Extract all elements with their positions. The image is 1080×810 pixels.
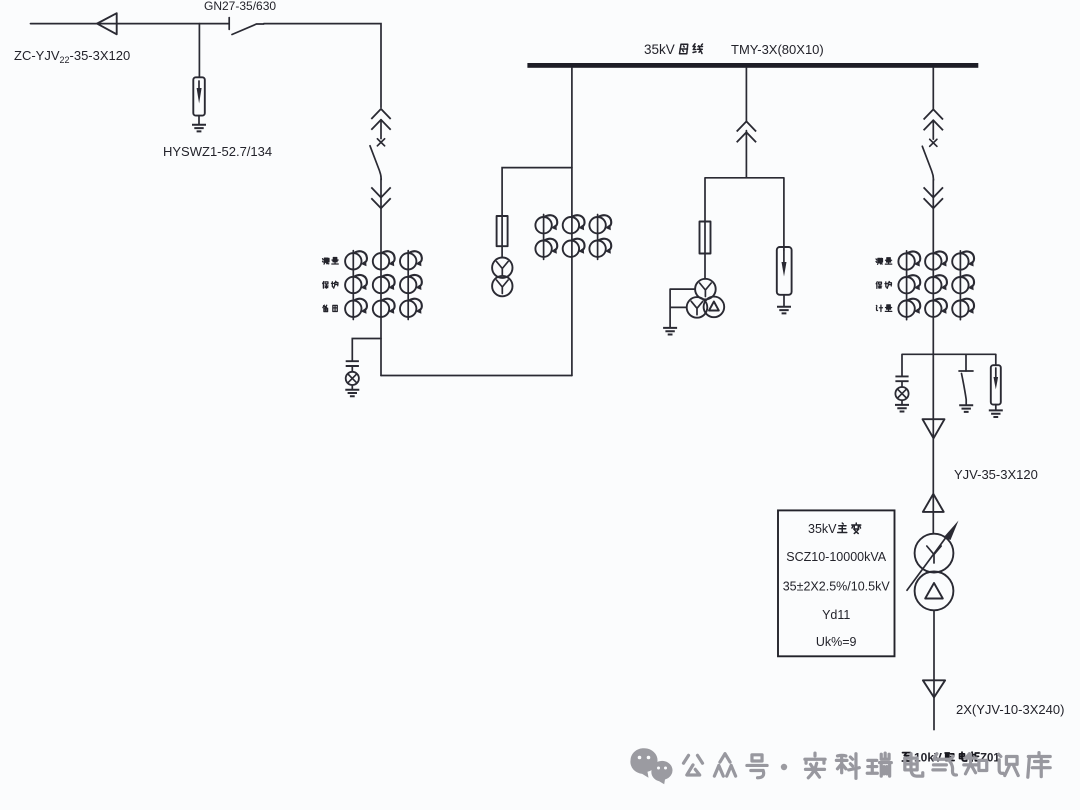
breaker QF1 drawer contact upper	[371, 109, 390, 130]
wire bus riser (incoming connection)	[571, 68, 573, 376]
label 保护 (outgoing)	[876, 281, 891, 288]
wire outgoing feeder from bus	[932, 68, 934, 109]
wire	[380, 120, 382, 139]
ground (PT2)	[663, 328, 677, 335]
label 备用	[323, 305, 337, 311]
CT set 测量 (outgoing row 1)	[898, 251, 974, 269]
earthing switch	[959, 371, 973, 405]
ground (earthing switch)	[959, 405, 973, 412]
circuit breaker QF1	[377, 139, 384, 146]
label cable ZC-YJV22-35-3X120	[14, 48, 130, 65]
breaker QF1 blade	[370, 146, 381, 180]
label 至10kV 配电柜Z01	[902, 751, 1000, 765]
svg-text:Yd11: Yd11	[822, 608, 850, 622]
spec line 35±2X2.5%/10.5kV	[783, 580, 891, 594]
PT drawer contact	[737, 121, 756, 142]
watermark wechat icon	[630, 748, 672, 784]
surge arrester F2	[777, 247, 792, 306]
wire PT branch from bus	[745, 68, 747, 121]
ground (arrester F3)	[989, 410, 1003, 417]
wire to feeder corner	[264, 24, 381, 108]
wire stub to live-display device	[352, 339, 381, 362]
CT column wires (bus riser)	[544, 215, 598, 260]
CT set row 1 (bus riser)	[535, 215, 611, 233]
breaker QF1 drawer contact lower	[371, 187, 390, 208]
svg-text:YJV-35-3X120: YJV-35-3X120	[954, 467, 1038, 482]
ground (arrester F2)	[777, 307, 791, 314]
label 保护	[323, 281, 338, 288]
breaker QF2 drawer contact lower	[924, 187, 943, 208]
transformer spec box	[778, 510, 895, 656]
cable terminal (up)	[923, 494, 944, 512]
label 测量	[323, 258, 339, 265]
fuse FU2	[700, 222, 711, 254]
busbar 35kV	[527, 63, 978, 68]
ground (arrester F1)	[192, 125, 206, 132]
svg-text:HYSWZ1-52.7/134: HYSWZ1-52.7/134	[163, 144, 272, 159]
label 35kV 母线	[644, 42, 703, 57]
CT set 备用 (row 3)	[345, 299, 422, 317]
tap changer arrow	[907, 521, 959, 591]
label cable 2X(YJV-10-3X240)	[956, 702, 1064, 717]
watermark text 公众号·安科瑞电气知识库	[683, 753, 1050, 779]
cable terminal secondary (down)	[923, 680, 945, 697]
surge arrester F3	[991, 365, 1001, 410]
CT column wires (outgoing)	[907, 251, 961, 320]
CT set 保护 (outgoing row 2)	[898, 275, 974, 293]
svg-text:SCZ10-10000kVA: SCZ10-10000kVA	[786, 550, 886, 564]
wire feeder down	[380, 179, 382, 376]
svg-text:35kV: 35kV	[808, 522, 837, 536]
CT set 计量 (outgoing row 3)	[898, 299, 974, 317]
svg-text:GN27-35/630: GN27-35/630	[204, 0, 276, 13]
svg-text:2X(YJV-10-3X240): 2X(YJV-10-3X240)	[956, 702, 1064, 717]
wire feeder down	[932, 180, 934, 534]
CT set 保护 (row 2)	[345, 275, 422, 293]
wire incoming overhead line	[31, 23, 229, 25]
live-line display device (cap+lamp+ground)	[345, 361, 359, 396]
label 测量 (outgoing)	[876, 258, 892, 265]
wire PT2 neutral to ground	[670, 289, 695, 327]
circuit breaker QF2	[930, 139, 937, 146]
spec line SCZ10-10000kVA	[786, 550, 886, 564]
CT set row 2 (bus riser)	[535, 239, 611, 257]
label GN27-35/630	[204, 0, 276, 13]
fuse FU1	[497, 216, 508, 246]
spec line 35kV主变	[808, 522, 861, 536]
voltage transformer PT2 (three winding)	[687, 279, 725, 318]
CT column wires	[353, 251, 408, 320]
label cable YJV-35-3X120	[954, 467, 1038, 482]
wire arrester tap	[198, 24, 200, 78]
spec line Uk%=9	[816, 635, 857, 649]
breaker QF2 drawer contact upper	[924, 109, 943, 130]
svg-text:TMY-3X(80X10): TMY-3X(80X10)	[731, 42, 824, 57]
label 计量 (outgoing)	[876, 305, 891, 312]
disconnector GN27-35/630	[229, 18, 264, 35]
wire PT branch split	[705, 131, 784, 279]
CT set 测量 (row 1)	[345, 251, 422, 269]
wire bottom link to bus riser	[381, 375, 572, 377]
transformer T1	[915, 534, 954, 611]
svg-text:35kV: 35kV	[644, 42, 675, 57]
svg-text:35±2X2.5%/10.5kV: 35±2X2.5%/10.5kV	[783, 580, 891, 594]
wire transformer secondary	[933, 611, 935, 730]
breaker QF2 blade	[922, 146, 933, 180]
wire branch to PT fuse	[502, 168, 572, 258]
live-line display device (outgoing)	[895, 376, 909, 411]
svg-text:Uk%=9: Uk%=9	[816, 635, 857, 649]
surge arrester F1	[193, 77, 205, 124]
label TMY-3X(80X10)	[731, 42, 824, 57]
label HYSWZ1-52.7/134	[163, 144, 272, 159]
spec line Yd11	[822, 608, 850, 622]
cable terminal (down)	[923, 419, 945, 438]
voltage transformer PT1 (two winding)	[492, 258, 512, 297]
cable terminal arrow (incoming)	[97, 13, 117, 34]
svg-text:ZC-YJV22-35-3X120: ZC-YJV22-35-3X120	[14, 48, 130, 65]
wire	[932, 120, 934, 139]
wire cabinet bottom links	[902, 354, 996, 376]
